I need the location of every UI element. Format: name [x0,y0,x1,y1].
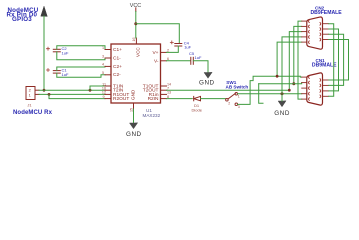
svg-text:AB Switch: AB Switch [226,85,249,90]
svg-text:C1+: C1+ [113,47,122,53]
svg-text:4: 4 [102,63,104,67]
svg-text:1: 1 [29,93,32,98]
junction T2OUT net [288,89,291,92]
switch SW1 pole [226,99,229,102]
polarity + C1 [47,69,50,72]
svg-text:V+: V+ [152,50,158,56]
pin names U1 left [113,47,129,102]
switch contact 3 [235,103,238,106]
svg-text:DB9FEMALE: DB9FEMALE [311,10,343,16]
svg-text:GND: GND [199,79,215,86]
svg-text:1uF: 1uF [62,51,69,56]
wire diode to SW1 [201,98,226,100]
svg-text:C2+: C2+ [113,64,122,70]
wire CN2.5 down to row [277,42,302,76]
svg-text:1uF: 1uF [62,72,69,77]
CN2 left pin stubs [302,21,307,42]
svg-text:3: 3 [238,105,240,109]
junction CN2.5 row [276,75,279,78]
wire SW1 contact1 to CN1 pin4 with GND tap [238,93,302,95]
pin numbers U1 right [167,49,171,99]
pin names U1 right [143,50,159,102]
svg-text:R2IN: R2IN [148,96,159,102]
capacitor C5 [191,57,194,64]
ground symbol right [278,101,286,107]
wire C2 top to pin C1+ [57,46,105,50]
wire CN2.8 to CN1.7 [329,34,344,85]
svg-text:C2-: C2- [113,72,121,78]
junction GND tap [281,92,284,95]
pin 15 stub [133,103,135,109]
IC U1 MAX232 body [111,44,161,103]
wire VCC down to pin 16 [135,12,137,39]
pin 16 stub [135,38,137,44]
wire J1.2 to T2IN [39,89,105,91]
junction VCC [134,22,137,25]
wire net NodeMCU-Rx vertical [43,16,45,90]
wire VCC to C4 [136,24,180,44]
pin stubs U1 left [105,50,111,99]
svg-text:15: 15 [130,108,134,112]
wire CN2.9 to CN1.6 [329,40,349,81]
svg-text:GND: GND [274,110,290,117]
wire T2OUT to CN2 pin3 [167,32,302,91]
wire C4 to V+ [167,46,179,52]
svg-text:2: 2 [228,101,230,105]
pin numbers U1 left [102,46,106,99]
svg-text:1uF: 1uF [184,45,191,50]
wire branch to T1IN [90,86,105,90]
capacitor C4 [175,44,182,47]
wire C2 bottom to pin C1- [57,52,105,60]
ground symbol below U1 [130,123,138,129]
pin stub J1-1 [35,93,39,95]
wire R2IN to diode [167,98,193,100]
switch contact 1 [235,92,238,95]
node NodeMCU label [7,7,39,23]
wire Z jog down [259,84,263,103]
wire V- to C5 [167,60,191,62]
wire C1 bottom to pin C2- [57,73,105,77]
wire pin15 to GND [133,109,135,123]
svg-text:VCC: VCC [136,47,141,57]
svg-text:V-: V- [154,58,159,64]
wire CN2.6 to CN1.9 [329,24,334,97]
ground symbol near C5 [204,73,212,79]
wire SW1 contact3 up and over to CN1 pin1 [238,76,302,104]
pin stub J1-2 [35,89,39,91]
wire CN2.7 to CN1.8 [329,29,339,91]
CN2 contacts [309,20,321,44]
svg-text:1: 1 [102,46,104,50]
svg-text:NodeMCU Rx: NodeMCU Rx [13,110,53,116]
svg-text:5: 5 [102,71,104,75]
node arrow to NodeMCU Rx pin [41,6,47,16]
connector CN2 shell [307,17,323,49]
junction at J1 pin2 wire [43,89,46,92]
polarity + C4 [170,41,173,44]
wire CN2.1 to CN1.5 [298,21,302,99]
svg-text:GND: GND [131,89,136,100]
svg-text:Diode: Diode [192,107,203,112]
capacitor C2 [53,49,60,52]
svg-text:9: 9 [102,95,104,99]
svg-text:J1: J1 [27,103,32,108]
wire J1.1 to R1OUT [39,93,105,95]
CN1 right pin stubs [323,80,329,96]
capacitor C1 [53,71,60,74]
pin stubs U1 right [161,52,167,98]
svg-text:C1-: C1- [113,55,121,61]
connector CN1 shell [307,73,323,105]
wire CN2.4 GND vertical [282,37,302,101]
diode D1 [194,96,201,100]
wire CN2.2 down to row [294,26,302,83]
svg-text:1uF: 1uF [195,55,202,60]
wire row to CN1.2 [259,83,302,84]
CN2 right pin stubs [323,24,329,40]
polarity + C2 [47,47,50,50]
wire C5 to GND [193,61,208,73]
switch lever [228,93,236,99]
svg-text:GND: GND [126,131,142,138]
CN1 left pin stubs [302,77,307,99]
svg-text:GPIO3: GPIO3 [12,16,32,23]
connector J1 [26,87,35,100]
svg-text:R2OUT: R2OUT [113,96,129,102]
svg-text:3: 3 [102,54,104,58]
junction R2OUT branch [48,93,51,96]
junction T1IN branch [89,89,92,92]
wire branch to R2OUT [49,94,105,98]
CN1 contacts [309,76,321,101]
svg-text:1: 1 [238,94,240,98]
svg-text:MAX232: MAX232 [143,113,161,118]
wire C1 top to pin C2+ [57,66,105,70]
junction CN2.2 row [292,82,295,85]
